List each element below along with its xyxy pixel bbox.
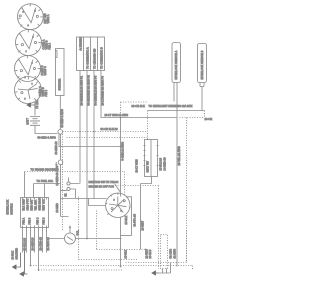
svg-text:28-OR: 28-OR: [205, 118, 213, 121]
harness dashed ignition box bottom: [79, 197, 146, 260]
svg-text:B: B: [35, 11, 37, 13]
S3 edge ticks: [144, 146, 159, 166]
ground arrow G1: [13, 253, 21, 270]
svg-text:A: ENGINE: A: ENGINE: [80, 37, 83, 50]
svg-text:INTERLOCK SENSOR A: INTERLOCK SENSOR A: [175, 50, 178, 79]
svg-text:20-LT GRN-16 AWG: 20-LT GRN-16 AWG: [105, 114, 129, 117]
wire drop x24: [24, 172, 26, 198]
junction dots y131: [79, 131, 81, 133]
svg-text:INTERLOCK SENSOR B: INTERLOCK SENSOR B: [201, 50, 204, 79]
svg-text:GROUND: GROUND: [16, 248, 19, 260]
svg-text:PIN A: PIN A: [23, 217, 26, 224]
svg-text:RED BAT: RED BAT: [31, 199, 34, 210]
wire S3 drop leg: [140, 184, 142, 250]
svg-text:32-ORG: 32-ORG: [170, 249, 173, 259]
harness dashed box Q (relay enclosure): [63, 111, 159, 231]
ground arrow G2: [20, 251, 28, 277]
svg-text:K1: K1: [65, 193, 68, 197]
svg-text:28-OR BLK: 28-OR BLK: [132, 105, 146, 108]
fuse F1 arrow (battery positive lead): [27, 102, 35, 109]
svg-text:26-BLK-16: 26-BLK-16: [24, 237, 27, 250]
wires U1 pins down: [23, 228, 47, 271]
wire y183 horizontal: [34, 183, 61, 185]
svg-text:24-GRY-16: 24-GRY-16: [32, 237, 35, 251]
svg-text:TO FRAME GROUND B: TO FRAME GROUND B: [31, 169, 59, 172]
node junction ring (battery/starter): [58, 130, 63, 135]
svg-text:30-RED-6 AWG: 30-RED-6 AWG: [38, 137, 56, 140]
wire S3 pin elbow: [141, 177, 152, 184]
svg-text:20-LTG/RED-16 AWG P4: 20-LTG/RED-16 AWG P4: [102, 76, 105, 106]
svg-text:PIN C: PIN C: [37, 217, 40, 224]
harness dashed box P top: [25, 172, 125, 197]
svg-text:TO SCHEMATIC B: TO SCHEMATIC B: [101, 47, 104, 69]
wire x60 to cluster: [61, 190, 67, 192]
svg-text:22-ORG-16: 22-ORG-16: [40, 236, 43, 250]
wire node branch y146: [59, 134, 121, 146]
wire y238 to solenoid: [49, 238, 122, 240]
wire S1 right leg: [126, 197, 132, 236]
headlight box U3: [198, 44, 207, 83]
wire battery top: [34, 109, 36, 116]
svg-text:18-BLU: 18-BLU: [149, 249, 152, 258]
svg-text:16-RED: 16-RED: [56, 203, 59, 212]
svg-text:MODULE: MODULE: [11, 203, 14, 214]
svg-text:TO SCHEMATIC A: TO SCHEMATIC A: [87, 47, 90, 69]
connector J2 (harness connector view): [16, 30, 42, 56]
svg-text:26-BLK: 26-BLK: [12, 250, 15, 259]
connector J3: [15, 56, 41, 82]
svg-text:30-OR BLK-16: 30-OR BLK-16: [101, 128, 119, 131]
svg-text:6: 6: [32, 84, 33, 86]
wire J5 pin3 down: [93, 71, 95, 199]
svg-text:B: B: [114, 200, 116, 202]
svg-text:5: 5: [25, 99, 26, 101]
svg-text:31-PPL-16: 31-PPL-16: [134, 213, 137, 226]
svg-text:5-GRN-16 AWG: 5-GRN-16 AWG: [122, 142, 125, 161]
svg-text:PIN 1: PIN 1: [49, 42, 52, 49]
junction dot S1 rail: [120, 266, 122, 268]
connector J4: [15, 77, 42, 104]
fuse holder node: [58, 160, 63, 165]
ground arrow G3: [152, 271, 159, 275]
svg-text:29-WHT: 29-WHT: [141, 220, 144, 230]
svg-text:SOL: SOL: [77, 230, 80, 236]
interlock module box U1: [21, 198, 49, 228]
wire J5 pin4 down then right: [101, 71, 177, 118]
svg-text:SHOWN IN OFF POS: SHOWN IN OFF POS: [89, 185, 115, 188]
wire y235 horizontal stub: [121, 235, 132, 237]
junction dots rails: [30, 265, 32, 267]
svg-text:ORG PTO: ORG PTO: [27, 199, 30, 211]
ignition switch S1: [106, 193, 131, 217]
wire vertical center (pin3 continuation): [120, 118, 122, 197]
pto connector dashed box bottom right: [161, 235, 168, 269]
svg-text:20-LT GRN: 20-LT GRN: [136, 159, 139, 172]
connector J1 (key switch rear view): [18, 4, 44, 30]
svg-text:INTERLOCK: INTERLOCK: [7, 199, 10, 214]
wire J5 pin2 down: [86, 71, 88, 239]
wire junction down: [60, 134, 62, 160]
svg-text:14-RED-16: 14-RED-16: [164, 157, 167, 171]
wires pto box to ground: [159, 263, 171, 274]
junction dot y117: [120, 117, 122, 119]
svg-text:2: 2: [33, 37, 34, 39]
svg-text:26-GRN/BLK-16 AWG P1: 26-GRN/BLK-16 AWG P1: [81, 75, 84, 105]
ground rail 2: [39, 269, 123, 271]
harness dashed leg to pto connector: [158, 186, 160, 269]
svg-text:WHT SOL: WHT SOL: [43, 198, 46, 210]
svg-text:YEL SEA: YEL SEA: [35, 199, 38, 210]
battery B1: [30, 117, 40, 126]
wire J5 pin1 down: [79, 71, 81, 184]
svg-text:A: A: [28, 24, 30, 27]
headlight switch box U2: [172, 43, 181, 83]
wire battery to junction: [35, 125, 58, 133]
wire S1 bottom down to rail: [120, 217, 122, 267]
svg-text:+ -: + -: [55, 162, 58, 165]
harness dashed spur y137: [67, 137, 148, 139]
svg-text:4: 4: [32, 63, 33, 65]
svg-text:34-ORG/BLK-16 AWG P3: 34-ORG/BLK-16 AWG P3: [95, 75, 98, 105]
svg-text:15-BLK-16: 15-BLK-16: [160, 157, 163, 170]
svg-text:PIN D: PIN D: [43, 217, 46, 224]
wire headlight feed: [148, 110, 205, 112]
wire U2 pin down solid: [176, 83, 178, 267]
junction dot y146: [120, 146, 122, 148]
ground rail 1: [31, 266, 193, 270]
svg-text:BLK GND: BLK GND: [23, 199, 26, 211]
svg-text:30-RED-6 AWG: 30-RED-6 AWG: [61, 109, 64, 127]
wire U2 second pin: [173, 83, 175, 102]
seat switch box S3: [145, 140, 158, 177]
wire node down to keyswitch area: [61, 165, 69, 217]
svg-text:16 AWG: 16 AWG: [174, 249, 177, 259]
U1 tick marks: [23, 198, 47, 228]
svg-text:TO HEADLIGHT HARNESS 20A MAX: TO HEADLIGHT HARNESS 20A MAX: [149, 105, 193, 108]
svg-text:TO CHASSIS GD: TO CHASSIS GD: [94, 49, 97, 69]
svg-text:28-YEL-16 AWG: 28-YEL-16 AWG: [178, 146, 181, 165]
wire starter to junction node: [59, 96, 61, 130]
starter M1: [56, 49, 65, 96]
harness dashed right leg: [186, 118, 188, 263]
svg-text:PIN B: PIN B: [29, 217, 32, 224]
svg-text:F1 20A: F1 20A: [36, 100, 39, 109]
connector block J5 (4-pole legend): [77, 37, 105, 71]
svg-text:1: 1: [26, 51, 27, 53]
svg-text:STARTER: STARTER: [58, 79, 61, 91]
harness dashed right lower box: [126, 231, 187, 263]
harness dashed box R1: [121, 102, 205, 118]
wire U3 pins down merge: [200, 83, 204, 111]
wire drop x33: [33, 184, 35, 198]
svg-text:30-RED-16: 30-RED-16: [55, 141, 58, 155]
svg-text:VIEW C: VIEW C: [44, 66, 47, 75]
harness clip mark: [55, 51, 57, 58]
svg-text:VIEW A: VIEW A: [47, 14, 50, 23]
svg-text:PIN 2: PIN 2: [45, 89, 48, 96]
wire S1 left terminal horizontals: [61, 199, 107, 206]
interlock relay terminals cluster: [67, 178, 80, 199]
svg-text:15-BLK: 15-BLK: [125, 249, 128, 258]
wire drop x44: [44, 184, 46, 198]
leader line caption to switch: [115, 184, 121, 193]
fuel solenoid K2: [65, 225, 76, 244]
svg-text:BATT: BATT: [27, 118, 30, 125]
junction dot solenoid feed: [86, 238, 88, 240]
svg-text:GRN MAG: GRN MAG: [39, 198, 42, 210]
svg-text:15-BLK: 15-BLK: [125, 215, 128, 224]
svg-text:SEAT SW: SEAT SW: [147, 160, 150, 172]
svg-text:TO FUEL SOL: TO FUEL SOL: [37, 180, 54, 183]
svg-text:IGNITION SW PN 725-04: IGNITION SW PN 725-04: [89, 181, 119, 184]
svg-text:36-GRY/WHT-16 AWG P2: 36-GRY/WHT-16 AWG P2: [88, 75, 91, 106]
